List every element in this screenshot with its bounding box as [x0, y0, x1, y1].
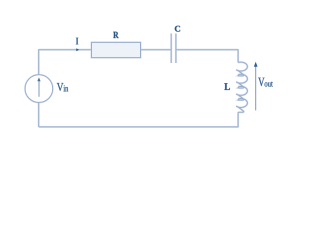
resistor R: body	[92, 42, 141, 57]
Vout measurement arrow shaft	[255, 66, 257, 111]
wire: right vertical, corner to inductor top	[237, 49, 239, 62]
voltage source Vin: internal up arrow shaft	[38, 81, 40, 97]
label Vin	[57, 83, 68, 91]
wire: top segment, capacitor to right corner	[176, 49, 238, 51]
label R	[113, 32, 118, 38]
Vout arrowhead	[254, 62, 258, 67]
label Vout	[258, 78, 273, 87]
soft halo under-stroke of the whole wiring net	[25, 34, 247, 128]
main wiring net	[25, 34, 247, 128]
wire: bottom segment	[39, 126, 238, 128]
capacitor C: left plate	[170, 34, 172, 64]
label C	[175, 26, 180, 32]
label I	[76, 38, 78, 45]
wire: left vertical, corner to source top	[38, 49, 40, 75]
voltage source Vin: circle body	[25, 75, 53, 103]
current arrow I on top wire	[76, 48, 79, 51]
inductor L: coil	[236, 62, 247, 112]
voltage source Vin: arrowhead	[37, 77, 40, 81]
wire: top segment, resistor to capacitor	[141, 49, 171, 51]
capacitor C: right plate	[175, 34, 177, 64]
wire: right vertical, inductor bottom to corner	[237, 112, 239, 127]
wire: top segment, left corner to resistor	[39, 49, 92, 51]
label L	[224, 83, 230, 90]
wire: left vertical, source bottom to corner	[38, 102, 40, 127]
